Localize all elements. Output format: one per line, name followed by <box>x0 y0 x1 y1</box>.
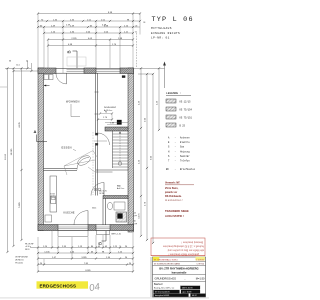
red note frame <box>151 238 205 256</box>
sill door mid <box>97 231 110 235</box>
legend swatch 4 <box>166 123 176 127</box>
entry door arc <box>56 73 67 84</box>
section B line bottom <box>105 231 107 241</box>
window bottom left lines <box>58 226 88 228</box>
scan grey line <box>0 297 209 298</box>
svg-text:04: 04 <box>88 281 100 294</box>
interior marks hall top <box>100 113 112 115</box>
terrace door arc <box>74 211 88 225</box>
entry fixture squares <box>44 75 49 80</box>
halfwall stair <box>105 127 128 131</box>
yellow chip row1 left <box>153 257 160 261</box>
svg-text:BAD: BAD <box>117 185 122 188</box>
svg-text:1.38: 1.38 <box>110 122 114 124</box>
legend swatch 3 <box>166 115 176 119</box>
svg-text:A=28.4 m²: A=28.4 m² <box>104 109 113 112</box>
wall bottom pier right <box>110 225 134 231</box>
left dim line v3 <box>21 68 23 240</box>
svg-text:Aufmaß v. 12.9.93 unbedingt be: Aufmaß v. 12.9.93 unbedingt beachten <box>162 245 204 248</box>
dim row top overall 8.38 <box>38 13 140 15</box>
svg-text:C 89710: C 89710 <box>196 264 204 266</box>
svg-text:-: - <box>175 155 176 158</box>
bath wall vert <box>102 199 104 225</box>
right dim top ticks <box>140 67 142 69</box>
column black <box>117 120 122 125</box>
right dim v4 label <box>156 100 158 105</box>
svg-text:LEGENDE :: LEGENDE : <box>166 92 182 95</box>
right dim v1 labels <box>138 100 140 105</box>
svg-text:36: 36 <box>9 61 11 63</box>
svg-text:HK OK RF: HK OK RF <box>25 244 34 246</box>
dining chairs <box>64 151 93 167</box>
left dim short v4 <box>27 61 29 68</box>
bottom ext x110 <box>109 235 111 253</box>
dim row bottom 3 <box>38 258 133 260</box>
svg-text:Gas: Gas <box>180 146 185 149</box>
handwritten red note rotated <box>162 241 204 256</box>
svg-text:5.865: 5.865 <box>19 201 21 207</box>
left dim top connector 2 <box>14 70 44 72</box>
door jamb marks partition <box>95 133 98 135</box>
svg-text:alle Maße am Bau zu prüfen und: alle Maße am Bau zu prüfen und <box>167 249 204 252</box>
svg-text:38.91: 38.91 <box>25 249 30 251</box>
svg-text:OK RF DECKE: OK RF DECKE <box>15 257 29 259</box>
svg-text:A=4.5 m²: A=4.5 m² <box>117 187 125 190</box>
left dim line v1 <box>7 68 9 252</box>
line above halfwall <box>105 122 128 124</box>
svg-text:11,5: 11,5 <box>16 65 20 67</box>
wall bottom pier left <box>38 225 58 231</box>
right dim v3 label <box>150 155 152 160</box>
svg-text:-: - <box>175 141 176 144</box>
section B line top <box>73 50 78 52</box>
hall door arc <box>98 133 110 145</box>
partition hall lower <box>95 145 97 196</box>
bottom ext x38 <box>37 237 39 272</box>
svg-text:Bauing.-Ges. mbH + Co: Bauing.-Ges. mbH + Co <box>154 288 174 290</box>
svg-text:11: 11 <box>135 31 137 33</box>
right dim v2 labels <box>144 117 146 122</box>
svg-text:AUCH STATIK !: AUCH STATIK ! <box>165 214 184 218</box>
bath wall horiz <box>103 196 128 199</box>
dim row top 2 <box>38 20 140 22</box>
titleblock grundriss box <box>153 274 206 276</box>
left dim line v2 label <box>11 148 13 155</box>
svg-text:Bauherr:: Bauherr: <box>154 283 164 286</box>
bottom ext x96 <box>95 235 97 253</box>
bottom ext x58 <box>57 237 59 253</box>
bottom ext x103 <box>102 235 104 248</box>
svg-text:A: A <box>34 129 37 134</box>
titleblock row7 <box>154 290 180 293</box>
extension line x48 <box>47 40 49 69</box>
right dim line v2 <box>146 74 148 240</box>
wall top pier mid <box>84 68 96 74</box>
handwritten 04 <box>88 281 100 294</box>
svg-text:-: - <box>175 146 176 149</box>
svg-text:06 02: 06 02 <box>192 295 197 297</box>
extension line x63 <box>62 21 64 73</box>
bottom ext x72 <box>71 237 73 259</box>
svg-text:MITTELHAUS: MITTELHAUS <box>151 27 172 30</box>
extension line x133 <box>132 14 134 69</box>
label WOHNEN leader <box>70 104 72 117</box>
svg-text:M. KLIMSCH-GROSS GANG: M. KLIMSCH-GROSS GANG <box>154 263 180 266</box>
sensor mark <box>122 76 125 78</box>
svg-text:LP-NR: 01: LP-NR: 01 <box>151 37 170 40</box>
titleblock left strip <box>150 257 152 297</box>
svg-text:Telefon: Telefon <box>180 159 190 162</box>
wall top base lines <box>38 67 134 69</box>
wall top window right lines <box>96 69 120 71</box>
left dim short v5 <box>31 63 33 71</box>
svg-text:bma-plan 04-061: bma-plan 04-061 <box>155 295 169 297</box>
red underline handnote <box>151 255 205 257</box>
kitchen sink <box>51 196 56 204</box>
partition hall upper <box>95 73 97 133</box>
left dim line v3 labels <box>19 121 21 127</box>
svg-text:24: 24 <box>26 61 28 63</box>
dim row bottom 2 <box>38 252 133 254</box>
svg-text:hansastraße: hansastraße <box>172 271 187 274</box>
bottom ext x52 <box>51 231 53 248</box>
svg-text:ESSEN: ESSEN <box>62 146 72 150</box>
svg-text:24: 24 <box>143 22 145 24</box>
titleblock bv box <box>153 265 206 267</box>
titleblock row8 <box>154 294 189 297</box>
svg-text:EINGANG RECHTS: EINGANG RECHTS <box>151 32 180 35</box>
kitchen stove <box>45 215 52 222</box>
wall top window left lines <box>67 69 85 71</box>
svg-text:DK-Rohbauda.: DK-Rohbauda. <box>165 195 182 198</box>
svg-text:M. GRÜNEWALD KW10: M. GRÜNEWALD KW10 <box>154 259 179 262</box>
svg-text:KS 12/15: KS 12/15 <box>180 100 192 103</box>
dim row bottom 5 overall <box>38 271 133 273</box>
svg-text:25cm Stein,: 25cm Stein, <box>165 187 179 190</box>
plumbing dashed line <box>92 132 94 195</box>
svg-text:C 20510: C 20510 <box>196 260 205 262</box>
wall top pier right <box>120 68 134 74</box>
kitchen wall <box>44 168 78 170</box>
svg-text:DAT 5.10.93: DAT 5.10.93 <box>182 287 192 290</box>
svg-text:KS 75/154: KS 75/154 <box>180 108 193 111</box>
wc bowl <box>107 202 112 209</box>
svg-text:ERDGESCHOSS: ERDGESCHOSS <box>40 284 77 289</box>
left dim top connector 1 <box>5 67 31 69</box>
left dim line v1 label <box>5 153 7 159</box>
section A arrow interior <box>44 85 50 87</box>
dim row top 6 <box>48 45 133 47</box>
bottom ext x120 <box>119 245 121 248</box>
shower hatched <box>116 212 127 222</box>
wall bottom base lines <box>38 229 134 231</box>
extension line x96 <box>95 21 97 68</box>
svg-text:BRH +1.20: BRH +1.20 <box>112 234 121 236</box>
section B letter bottom <box>98 242 103 245</box>
svg-text:10.065: 10.065 <box>11 148 13 155</box>
wall top pier left <box>38 68 56 74</box>
svg-text:TYP L 06: TYP L 06 <box>152 16 194 24</box>
dim row bottom 1 <box>30 247 133 249</box>
svg-text:+0.16 =: +0.16 = <box>25 246 31 248</box>
svg-text:TRAGWERK SIEHE: TRAGWERK SIEHE <box>165 209 189 213</box>
svg-text:56.75: 56.75 <box>51 196 55 198</box>
left dim top ticks <box>6 67 8 69</box>
svg-text:UK RD 16: UK RD 16 <box>15 259 24 261</box>
interior dim small <box>107 124 117 126</box>
legend swatch 1 <box>166 99 176 103</box>
svg-text:Elektro: Elektro <box>180 141 190 144</box>
extension line x140 <box>139 14 141 35</box>
kitchen counter <box>50 176 57 212</box>
bath door arc <box>91 183 104 196</box>
wall right party <box>128 68 134 232</box>
svg-text:Bestand beachten !: Bestand beachten ! <box>181 241 203 244</box>
kitchen door arc <box>77 158 89 170</box>
titleblock outer <box>153 257 206 297</box>
svg-text:1.175: 1.175 <box>138 213 140 219</box>
section A bracket left <box>36 135 38 142</box>
wall left party <box>38 68 44 231</box>
sill terrace <box>58 231 88 237</box>
svg-text:1.135: 1.135 <box>44 251 50 253</box>
svg-text:B 25: B 25 <box>180 124 186 127</box>
svg-text:24: 24 <box>135 25 137 27</box>
right dim top connector 1 <box>134 67 165 69</box>
svg-text:-: - <box>175 159 176 162</box>
svg-text:300.5: 300.5 <box>92 208 96 210</box>
right dim line v4 <box>158 68 160 130</box>
svg-text:4.135: 4.135 <box>19 121 21 127</box>
dining table <box>76 154 92 168</box>
svg-text:jeweils vor: jeweils vor <box>164 191 177 194</box>
titleblock bauherr <box>153 281 206 283</box>
ghost rect pencil <box>67 57 86 66</box>
extension line x120 <box>119 27 121 68</box>
boiler black <box>118 214 123 219</box>
svg-text:-: - <box>175 150 176 153</box>
legend swatch 2 <box>166 107 176 111</box>
svg-text:ist anzunehmen !: ist anzunehmen ! <box>165 199 183 202</box>
stair walkline <box>119 133 121 163</box>
partition hall ticks <box>95 91 99 93</box>
svg-text:B: B <box>98 242 103 245</box>
svg-text:WOHN-/ESSZI: WOHN-/ESSZI <box>104 107 116 109</box>
extension line x110 <box>109 40 111 69</box>
svg-text:Sanitär: Sanitär <box>180 155 190 158</box>
svg-text:Vermerk: NF.: Vermerk: NF. <box>165 182 180 185</box>
left edge artifact <box>0 86 7 88</box>
svg-text:KUECHE: KUECHE <box>64 212 75 215</box>
svg-text:WOHNEN: WOHNEN <box>66 100 80 104</box>
right dim top connector 2 <box>138 73 153 75</box>
svg-text:Antenne: Antenne <box>180 137 190 140</box>
extension line x38 <box>37 14 39 69</box>
svg-text:-: - <box>175 168 176 171</box>
yellow chip row1 right <box>196 257 206 261</box>
svg-text:Heizung: Heizung <box>180 150 190 153</box>
svg-text:BV: ZTR RHYTHMEN+HOFBERG: BV: ZTR RHYTHMEN+HOFBERG <box>159 267 198 271</box>
svg-text:8.385: 8.385 <box>85 270 91 272</box>
svg-text:gez. 10.93: gez. 10.93 <box>183 292 192 294</box>
svg-text:3.385: 3.385 <box>81 257 87 259</box>
svg-text:B: B <box>67 50 72 53</box>
dim row top 4 <box>44 32 133 34</box>
svg-text:geänderte Maße beachten !: geänderte Maße beachten ! <box>168 253 199 256</box>
wc basin <box>114 202 125 210</box>
svg-text:10.24: 10.24 <box>5 153 7 159</box>
svg-text:M. Grünewald eK: M. Grünewald eK <box>155 291 170 294</box>
stair stringer <box>112 131 114 168</box>
svg-text:GRUNDRISS+EG: GRUNDRISS+EG <box>155 277 177 281</box>
axis arrow <box>164 64 166 88</box>
dim row top 3 <box>38 26 140 28</box>
svg-text:OK FB: OK FB <box>99 193 105 195</box>
extension line x44 <box>43 27 45 68</box>
svg-text:TR ±0.00: TR ±0.00 <box>15 262 23 264</box>
bottom ext x88 <box>87 237 89 253</box>
left dim line v2 <box>13 68 15 246</box>
stair treads <box>113 133 129 135</box>
bath circles <box>94 188 97 191</box>
bottom ext x133 <box>132 233 134 272</box>
bottom ext x44 <box>43 259 45 265</box>
section B letter top <box>67 50 72 53</box>
right dim line v1 <box>140 68 142 236</box>
window bottom mid lines <box>96 226 110 228</box>
right dim line v3 <box>152 74 154 243</box>
svg-text:2.335: 2.335 <box>71 38 77 40</box>
dim row top 5 <box>48 39 133 41</box>
wall bottom pier mid <box>88 225 96 231</box>
titleblock row 2 <box>153 261 206 263</box>
dashed overhang line <box>136 33 138 67</box>
svg-text:Briefkasten: Briefkasten <box>180 168 196 171</box>
svg-text:-: - <box>175 137 176 140</box>
section A line fragment <box>94 140 107 142</box>
interior dim 1.76 <box>98 119 112 121</box>
svg-text:M=1:50: M=1:50 <box>196 277 205 281</box>
dim row bottom 4 <box>38 264 133 266</box>
svg-text:KS 75/151: KS 75/151 <box>180 116 193 119</box>
yellow highlight <box>37 281 89 288</box>
stair landing line <box>96 169 128 171</box>
